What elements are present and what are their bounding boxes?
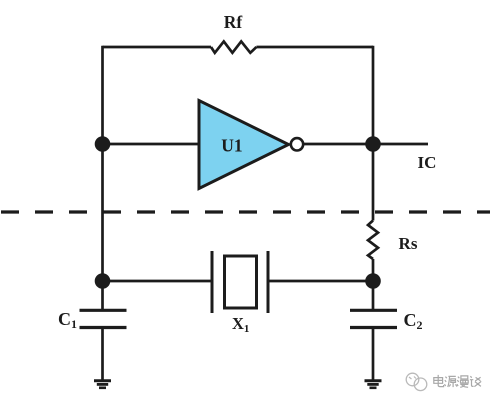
wire: left vertical through dashed line bbox=[101, 144, 104, 281]
resistor Rs bbox=[368, 221, 378, 260]
watermark logo (two circles) bbox=[406, 373, 427, 390]
crystal X1 right plate bbox=[267, 251, 270, 313]
wire: C1 to ground bbox=[101, 328, 104, 381]
node: bottom left junction bbox=[95, 273, 111, 289]
wire: top feedback left segment bbox=[103, 46, 212, 49]
glyph 漫 bbox=[457, 376, 468, 387]
wire: right vertical (top loop to output node) bbox=[372, 46, 375, 144]
capacitor C2 bbox=[350, 309, 397, 312]
resistor Rf bbox=[211, 41, 256, 52]
wire: Rs to bottom node bbox=[372, 259, 375, 281]
wire: bottom rail right (crystal to node) bbox=[268, 280, 373, 283]
node: bottom right junction bbox=[365, 273, 381, 289]
dashed separation line bbox=[1, 210, 490, 213]
wire: node to C2 bbox=[372, 281, 375, 310]
ground (left) bbox=[94, 381, 111, 388]
wire: left vertical (top loop to input node) bbox=[101, 46, 104, 144]
svg-text:Rf: Rf bbox=[224, 12, 243, 32]
crystal X1 body bbox=[225, 256, 257, 308]
svg-text:U1: U1 bbox=[221, 136, 242, 156]
wire: right vertical from output node to Rs bbox=[372, 144, 375, 221]
crystal X1 left plate bbox=[211, 251, 214, 313]
node: inverter output junction bbox=[365, 136, 381, 152]
capacitor C1 bbox=[80, 309, 127, 312]
glyph 源 bbox=[445, 376, 457, 387]
wire: top feedback right segment bbox=[256, 46, 373, 49]
inverter output bubble bbox=[291, 138, 303, 150]
wire: bottom rail left (node to crystal) bbox=[103, 280, 213, 283]
op-amp U1 (inverter triangle) bbox=[199, 101, 289, 189]
svg-text:Rs: Rs bbox=[399, 234, 418, 253]
wire: output stub to IC bbox=[373, 143, 428, 146]
wire: C2 to ground bbox=[372, 328, 375, 381]
wire: inverter output to node bbox=[303, 143, 373, 146]
wire: node to C1 bbox=[101, 281, 104, 310]
node: inverter input junction bbox=[95, 136, 111, 152]
glyph 电 bbox=[434, 375, 444, 387]
wire: inverter input bbox=[103, 143, 200, 146]
svg-text:IC: IC bbox=[418, 153, 437, 172]
ground (right) bbox=[365, 381, 382, 388]
glyph 谈 bbox=[470, 376, 481, 386]
watermark text 电源漫谈 (drawn strokes) bbox=[434, 375, 481, 387]
